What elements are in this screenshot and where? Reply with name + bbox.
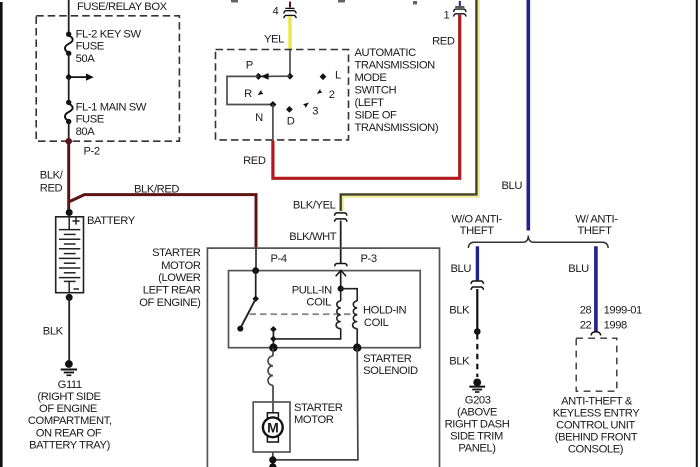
svg-text:W/ ANTI-: W/ ANTI- (575, 213, 618, 225)
wire N out of switch (272, 105, 274, 141)
svg-text:G111: G111 (58, 379, 82, 391)
svg-text:MOTOR: MOTOR (161, 260, 201, 272)
wire P-4 into solenoid (255, 248, 257, 271)
wire BLU w/ anti-theft branch (594, 246, 598, 332)
svg-text:COIL: COIL (364, 317, 389, 329)
junction diamond on stem (270, 336, 277, 343)
cropped title remnant marks (231, 0, 238, 3)
svg-text:BLK/YEL: BLK/YEL (293, 199, 336, 211)
svg-text:28: 28 (580, 304, 592, 316)
wire BLU w/o anti-theft branch (476, 246, 479, 280)
node P-4 junction (252, 267, 259, 274)
svg-text:RIGHT DASH: RIGHT DASH (445, 419, 510, 431)
wire P to N (227, 76, 273, 104)
svg-text:BLK: BLK (449, 305, 470, 317)
svg-text:STARTER: STARTER (294, 402, 343, 414)
svg-text:FUSE/RELAY BOX: FUSE/RELAY BOX (77, 1, 168, 13)
wire into switch (289, 50, 291, 76)
svg-text:THEFT: THEFT (460, 225, 495, 237)
hold-in coil (341, 289, 358, 348)
connector P-3 (socket and pin) (335, 264, 347, 277)
svg-text:(LEFT: (LEFT (355, 97, 385, 109)
svg-text:RED: RED (432, 35, 455, 47)
svg-text:22: 22 (580, 320, 592, 332)
svg-text:P-2: P-2 (84, 146, 100, 158)
node pull-in/hold-in split (338, 286, 344, 292)
solenoid inner box (229, 271, 421, 348)
wire BLK dashed (476, 334, 478, 377)
contact stem wire (272, 329, 274, 348)
right page border line (696, 0, 698, 467)
svg-text:FL-2 KEY SW: FL-2 KEY SW (76, 29, 142, 41)
wire between fuses (68, 53, 70, 102)
svg-text:4: 4 (273, 6, 279, 18)
svg-text:L: L (335, 69, 341, 81)
wire BLK/WHT (340, 221, 342, 264)
svg-text:(ABOVE: (ABOVE (457, 407, 497, 419)
label W/ ANTI- THEFT (575, 213, 618, 236)
svg-text:80A: 80A (76, 126, 96, 138)
connector at control unit (591, 332, 601, 336)
label W/O ANTI- THEFT (451, 213, 502, 236)
svg-text:SOLENOID: SOLENOID (363, 365, 418, 377)
wire BLK solid (476, 289, 478, 332)
fuse FL-1 MAIN SW (65, 100, 73, 125)
svg-text:MODE: MODE (355, 72, 387, 84)
svg-text:1999-01: 1999-01 (604, 304, 642, 316)
fuse FL-2 KEY SW (65, 32, 73, 57)
switch common node (287, 73, 294, 80)
svg-text:ANTI-THEFT &: ANTI-THEFT & (561, 396, 633, 408)
svg-text:THEFT: THEFT (577, 225, 612, 237)
wire RED from switch to connector 1 (273, 15, 460, 179)
wire BLK/RED vertical battery feed (67, 141, 70, 212)
svg-text:BATTERY TRAY): BATTERY TRAY) (29, 440, 110, 452)
starter motor outer box (207, 248, 439, 467)
svg-text:P: P (246, 60, 253, 72)
svg-text:(LOWER: (LOWER (158, 272, 201, 284)
svg-text:BLU: BLU (502, 180, 523, 192)
wire BLU main (526, 0, 530, 231)
node solenoid output (269, 344, 277, 352)
anti-theft control unit box (dashed) (576, 338, 617, 391)
contact 3 (arrow) (303, 103, 309, 109)
contact P (255, 73, 262, 80)
svg-text:SIDE TRIM: SIDE TRIM (450, 431, 503, 443)
svg-text:G203: G203 (465, 395, 491, 407)
svg-text:LEFT REAR: LEFT REAR (143, 285, 201, 297)
svg-text:1998: 1998 (604, 320, 627, 332)
starter motor box (253, 402, 290, 452)
svg-text:BLK/WHT: BLK/WHT (289, 231, 336, 243)
svg-text:COIL: COIL (306, 297, 331, 309)
ground stub (cut off) (269, 463, 276, 467)
contact N (269, 101, 276, 108)
svg-text:CONSOLE): CONSOLE) (568, 444, 624, 456)
solenoid switch arm (255, 271, 257, 299)
label G203 (ABOVE RIGHT DASH SIDE TRIM PANEL) (445, 395, 510, 455)
mechanical link (dashed) (250, 313, 358, 315)
node P-2 (65, 138, 72, 145)
ground G111 (61, 360, 77, 375)
label ANTI-THEFT & KEYLESS ENTRY CONTROL UNIT (BEHIND FRONT CONSOLE) (553, 396, 641, 456)
motor M symbol (263, 413, 283, 442)
svg-text:FL-1 MAIN SW: FL-1 MAIN SW (76, 102, 147, 114)
svg-text:P-4: P-4 (271, 253, 287, 265)
svg-text:BLK/RED: BLK/RED (134, 183, 179, 195)
wire motor to bottom junction (272, 452, 274, 467)
label G111 (RIGHT SIDE OF ENGINE COMPARTMENT, ON REAR OF BATTERY TRAY) (28, 379, 112, 452)
brace split (468, 236, 608, 249)
svg-text:OF ENGINE): OF ENGINE) (139, 297, 201, 309)
svg-text:N: N (255, 112, 263, 124)
label AUTOMATIC TRANSMISSION MODE SWITCH (LEFT SIDE OF TRANSMISSION) (355, 47, 439, 134)
svg-text:BLU: BLU (568, 263, 589, 275)
label STARTER MOTOR (LOWER LEFT REAR OF ENGINE) (139, 247, 201, 309)
svg-text:W/O ANTI-: W/O ANTI- (451, 213, 502, 225)
svg-text:SWITCH: SWITCH (355, 84, 397, 96)
automatic transmission mode switch box (dashed) (216, 50, 349, 140)
svg-text:PANEL): PANEL) (458, 443, 496, 455)
node splice (474, 328, 481, 335)
left page border bar (0, 2, 3, 467)
wire solenoid to motor with coil (268, 348, 273, 413)
svg-text:RED: RED (40, 182, 63, 194)
connector 1 (454, 1, 466, 17)
hold-in return wire (273, 348, 358, 460)
svg-text:2: 2 (329, 89, 335, 101)
svg-text:3: 3 (312, 106, 318, 118)
battery (56, 209, 84, 301)
svg-text:TRANSMISSION: TRANSMISSION (355, 59, 436, 71)
wire YEL (288, 16, 292, 50)
svg-text:BLK: BLK (449, 355, 470, 367)
svg-text:1: 1 (444, 10, 450, 22)
svg-text:50A: 50A (76, 53, 96, 65)
svg-text:MOTOR: MOTOR (294, 414, 334, 426)
svg-text:BATTERY: BATTERY (87, 215, 136, 227)
svg-text:M: M (267, 420, 279, 436)
node bottom junction (269, 456, 276, 463)
svg-text:OF ENGINE: OF ENGINE (39, 403, 97, 415)
svg-text:STARTER: STARTER (363, 353, 412, 365)
svg-text:BLK/: BLK/ (40, 170, 64, 182)
svg-text:CONTROL UNIT: CONTROL UNIT (556, 420, 635, 432)
connector w/o branch (471, 281, 483, 290)
wire YEL (olive, black core w/ yellow tracer) from top to BLK/YEL connector (342, 0, 478, 211)
svg-text:(RIGHT SIDE: (RIGHT SIDE (37, 391, 100, 403)
inline connector BLK/YEL to BLK/WHT (335, 213, 347, 222)
svg-text:STARTER: STARTER (152, 247, 201, 259)
svg-text:P-3: P-3 (361, 253, 377, 265)
svg-text:RED: RED (243, 155, 266, 167)
svg-text:FUSE: FUSE (76, 114, 104, 126)
contact D (286, 106, 293, 113)
wire from top into fuse box (68, 0, 70, 34)
node hold-in return (353, 344, 361, 352)
svg-text:TRANSMISSION): TRANSMISSION) (355, 122, 439, 134)
svg-text:R: R (244, 88, 252, 100)
tap arrow node (66, 74, 94, 81)
contact L (320, 73, 327, 80)
svg-text:YEL: YEL (264, 33, 284, 45)
fuse/relay box (dashed) (36, 16, 179, 141)
svg-text:(BEHIND FRONT: (BEHIND FRONT (555, 432, 638, 444)
solenoid fixed contact (270, 326, 277, 333)
svg-text:HOLD-IN: HOLD-IN (363, 304, 407, 316)
svg-text:BLU: BLU (451, 263, 472, 275)
svg-text:AUTOMATIC: AUTOMATIC (355, 47, 417, 59)
wire BLK/RED horizontal branch (70, 195, 256, 249)
svg-text:SIDE OF: SIDE OF (355, 109, 398, 121)
pull-in coil (273, 289, 340, 339)
svg-text:FUSE: FUSE (76, 41, 104, 53)
svg-text:COMPARTMENT,: COMPARTMENT, (28, 415, 112, 427)
svg-text:ON REAR OF: ON REAR OF (36, 428, 102, 440)
svg-text:KEYLESS ENTRY: KEYLESS ENTRY (553, 408, 641, 420)
wire to node P-2 (68, 122, 70, 142)
contact 2 (arrow) (317, 89, 323, 94)
wire BLK battery to ground (68, 297, 70, 360)
contact R (arrow) (258, 90, 264, 96)
svg-text:PULL-IN: PULL-IN (292, 284, 332, 296)
ground G203 (469, 379, 485, 393)
svg-text:D: D (287, 116, 295, 128)
connector 4 (284, 2, 296, 19)
wire P-3 to coils (340, 270, 342, 288)
moving contact arm with arrow (258, 75, 290, 77)
svg-text:BLK: BLK (43, 325, 64, 337)
